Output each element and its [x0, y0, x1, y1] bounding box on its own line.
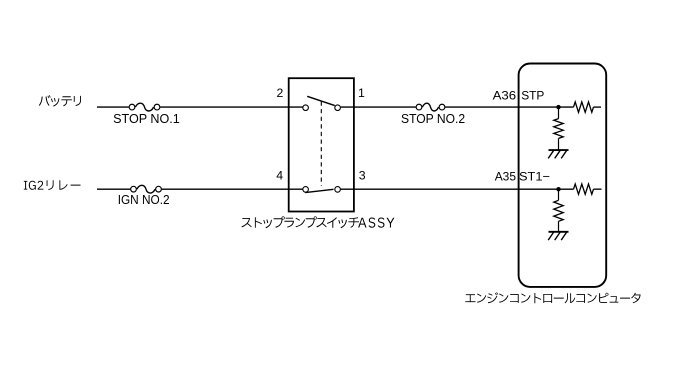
ground G2	[548, 232, 568, 240]
resistor R4 to ground	[554, 200, 563, 221]
svg-text:STOP NO.1: STOP NO.1	[113, 111, 180, 126]
label: engine control computer (エンジンコントロールコンピュータ)	[465, 292, 640, 303]
resistor R1 on STP line	[574, 102, 594, 112]
fuse F2 IGN NO.2	[131, 185, 162, 193]
pin number 2	[277, 86, 284, 100]
pin label A35 ST1-	[495, 169, 550, 183]
label: stop lamp switch ASSY (ストップランプスイッチASSY)	[242, 216, 395, 228]
node label: IG2 relay (IG2リレー)	[24, 180, 81, 190]
wire: fuse IGN NO.2 to switch pin 4	[162, 188, 303, 190]
svg-text:3: 3	[359, 168, 366, 182]
svg-text:A36: A36	[493, 88, 517, 102]
label: STOP NO.2	[401, 111, 465, 126]
pin number 4	[276, 168, 283, 182]
switch contact pin 4	[303, 187, 309, 193]
wire: IG2 relay to fuse IGN NO.2	[97, 188, 130, 190]
wire: junction A35 down	[558, 189, 560, 200]
mechanical link (dashed)	[320, 102, 322, 186]
wire: R2 to ground G1	[558, 138, 560, 150]
wire: R4 to ground G2	[558, 221, 560, 232]
wire: R3 tail	[594, 188, 602, 190]
pin label A36 STP	[493, 88, 545, 102]
switch contact pin 3	[335, 187, 341, 193]
resistor R2 to ground	[554, 119, 563, 139]
junction node at A36	[556, 105, 560, 109]
wire: junction A36 down	[558, 107, 560, 119]
svg-text:ST1−: ST1−	[519, 169, 550, 183]
ECU box (engine control computer)	[519, 64, 607, 287]
svg-text:4: 4	[276, 168, 283, 182]
svg-text:A35: A35	[495, 169, 516, 183]
svg-text:2: 2	[277, 86, 284, 100]
wire: switch pin 3 to ECU pin A35	[341, 188, 574, 190]
fuse F3 STOP NO.2	[416, 103, 445, 111]
pin number 1	[358, 86, 365, 100]
label: IGN NO.2	[118, 192, 170, 207]
svg-text:STP: STP	[521, 88, 544, 102]
junction node at A35	[556, 187, 560, 191]
wire: switch pin 1 to fuse STOP NO.2	[341, 106, 416, 108]
wire: R1 tail	[594, 106, 602, 108]
svg-text:IGN NO.2: IGN NO.2	[118, 192, 170, 207]
svg-text:STOP NO.2: STOP NO.2	[401, 111, 465, 126]
wire: battery to fuse STOP NO.1	[97, 106, 129, 108]
ground G1	[548, 150, 568, 158]
pin number 3	[359, 168, 366, 182]
switch contact pin 2	[303, 105, 309, 111]
switch lever (lower)	[305, 189, 333, 192]
stop lamp switch box S1	[289, 78, 354, 211]
wire: fuse STOP NO.1 to switch pin 2	[160, 106, 302, 108]
resistor R3 on ST1 line	[574, 184, 594, 194]
svg-text:1: 1	[358, 86, 365, 100]
wire: fuse STOP NO.2 to ECU pin A36	[445, 106, 573, 108]
switch contact pin 1	[335, 105, 341, 111]
switch lever (upper, open)	[307, 96, 335, 105]
fuse F1 STOP NO.1	[129, 103, 160, 111]
label: STOP NO.1	[113, 111, 180, 126]
node label: battery (バッテリ)	[39, 95, 81, 107]
